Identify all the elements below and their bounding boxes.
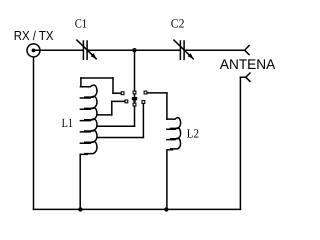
svg-text:C2: C2 <box>171 17 185 31</box>
svg-text:ANTENA: ANTENA <box>220 56 276 72</box>
svg-text:L2: L2 <box>187 127 199 141</box>
svg-text:RX / TX: RX / TX <box>14 28 54 43</box>
svg-text:L1: L1 <box>62 116 73 130</box>
svg-text:C1: C1 <box>75 17 87 31</box>
